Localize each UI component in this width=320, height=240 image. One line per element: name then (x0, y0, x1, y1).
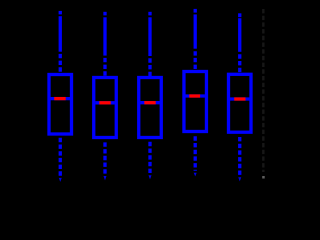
wire top of R2 (103, 12, 106, 16)
value band R1 (54, 97, 65, 100)
body box R4 (184, 72, 207, 132)
wire bottom of R2 (103, 142, 106, 173)
resistor R4 (184, 9, 207, 177)
body box R2 (94, 78, 117, 138)
wire bottom of R5 (238, 137, 241, 175)
wire bottom of R1 (59, 138, 62, 176)
wire top of R4 (194, 9, 197, 13)
wire bottom of R4 (194, 136, 197, 171)
node post of W6 (262, 176, 265, 179)
value band R5 (234, 97, 245, 100)
resistor R3 (139, 12, 162, 180)
resistor R2 (94, 12, 117, 181)
body box R3 (139, 78, 162, 138)
value band R4 (189, 94, 200, 97)
body box R1 (49, 75, 72, 135)
resistor R1 (49, 11, 72, 182)
resistor R5 (229, 13, 252, 181)
value band R3 (144, 101, 155, 104)
body box R5 (229, 74, 252, 132)
wire top of R3 (148, 12, 151, 16)
wire top of R1 (59, 11, 62, 15)
wire bottom of R3 (148, 142, 151, 173)
value band R2 (99, 101, 110, 104)
wire top of R5 (238, 13, 241, 17)
wire W6 (dim, at right edge) (262, 9, 265, 179)
